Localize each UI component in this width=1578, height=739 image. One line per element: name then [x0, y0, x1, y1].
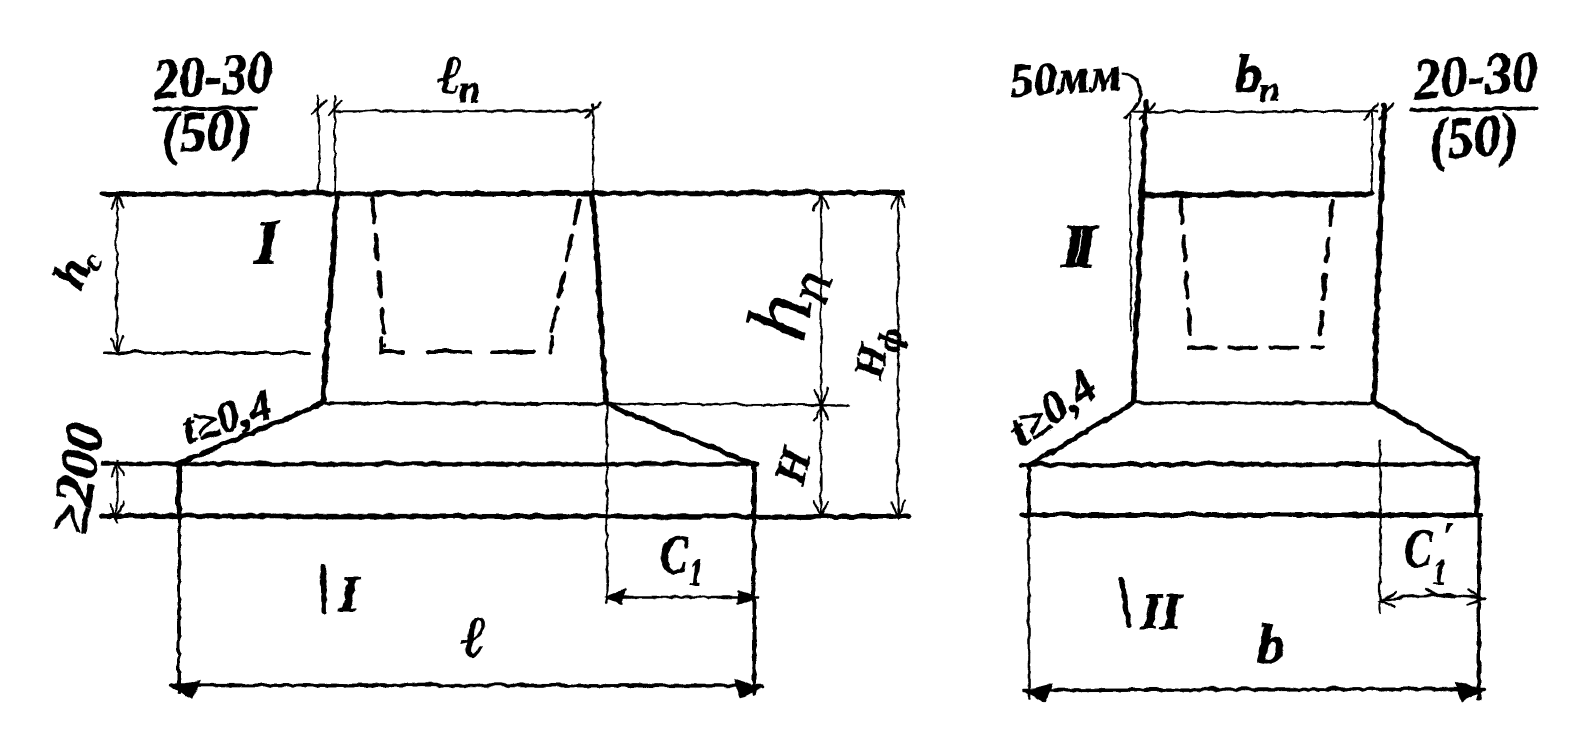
svg-text:п: п [458, 68, 479, 110]
right pedestal left wall [1132, 100, 1145, 401]
slab top line [102, 461, 756, 466]
dimension line C1 [606, 595, 757, 598]
arrow C1 right [737, 590, 754, 603]
svg-text:Н: Н [764, 441, 821, 489]
right left extension below slab [1027, 515, 1030, 697]
arrow tick bp left a [1124, 102, 1138, 118]
right right extension below slab [1476, 515, 1480, 697]
right pedestal left thin extension [1129, 113, 1130, 330]
right left slope [1028, 402, 1132, 465]
socket dashed bottom [380, 337, 551, 351]
arrow tick bp left b [1139, 103, 1153, 119]
arrow tick ln left b [328, 100, 341, 114]
left slope [179, 402, 322, 462]
bp dimension line (top face) [1131, 110, 1376, 111]
right socket dashed bottom [1188, 346, 1322, 347]
svg-text:п: п [1259, 68, 1279, 108]
pedestal bottom extension to h-dim [609, 403, 847, 404]
right slab right edge [1473, 458, 1479, 515]
socket dashed left wall [371, 197, 384, 345]
foundation top line [101, 192, 902, 193]
svg-text:b: b [1256, 613, 1284, 675]
arrow hc bottom [110, 335, 122, 351]
arrow b left [1023, 683, 1051, 701]
arrow H bottom [813, 500, 827, 516]
svg-text:b: b [1234, 43, 1261, 103]
dimension line l [170, 684, 762, 685]
svg-text:′: ′ [1441, 514, 1453, 560]
right right slope [1373, 401, 1472, 458]
left extension line below slab [177, 517, 180, 692]
dimension hc vertical [115, 193, 117, 351]
arrow b right [1455, 682, 1481, 700]
right slab top line [1021, 463, 1476, 464]
hc bottom extension line [104, 351, 308, 354]
arrow Hf top [890, 192, 904, 208]
arrow l right [733, 679, 759, 697]
label hn rotated [727, 257, 844, 348]
label t>=0.4 right rotated [997, 359, 1105, 456]
arrow hc top [110, 193, 122, 208]
right pedestal bottom line [1132, 400, 1373, 404]
pedestal right wall [592, 195, 605, 401]
right slab left edge [1026, 464, 1030, 515]
right socket dashed left wall [1180, 198, 1190, 342]
extension line 20-30 gap right [333, 95, 335, 192]
svg-text:ℓ: ℓ [460, 603, 485, 668]
dimension hn vertical [819, 193, 821, 404]
right slope corner piece [1472, 458, 1476, 462]
arrow C1' right [1467, 590, 1483, 603]
svg-text:t≥0,4: t≥0,4 [997, 359, 1105, 456]
hook under C1' [1426, 589, 1455, 596]
arrow tick bp right a [1363, 102, 1377, 118]
slab bottom line [100, 515, 908, 516]
dimension >=200 vertical [115, 459, 117, 522]
dimension Hf vertical [896, 192, 898, 517]
dimension line ln [336, 109, 592, 111]
label H rotated [764, 441, 821, 489]
arrow hn bottom [813, 388, 827, 404]
arrow C1' left [1379, 592, 1395, 605]
label t>=0.4 left rotated [175, 379, 277, 453]
svg-text:I: I [337, 565, 360, 622]
svg-text:(50): (50) [157, 95, 253, 166]
right slope [605, 403, 751, 463]
svg-text:20-30: 20-30 [1409, 37, 1539, 111]
arrow H top [813, 405, 827, 420]
svg-text:≥200: ≥200 [37, 418, 115, 537]
section mark I bottom bar [322, 565, 323, 611]
arrow hn top [813, 193, 827, 209]
section mark II bottom bar [1120, 578, 1128, 624]
svg-text:I: I [253, 208, 280, 276]
extension line C1 from pedestal corner [605, 401, 607, 601]
right pedestal right thin extension [1370, 111, 1372, 194]
socket dashed right wall [549, 199, 578, 341]
socket top thick line [1144, 193, 1371, 194]
arrow 200 top [110, 461, 123, 476]
svg-text:50мм: 50мм [1007, 47, 1122, 107]
arrow 200 bottom [109, 501, 123, 519]
slab left edge [176, 462, 181, 517]
hook from 50mm [1122, 72, 1139, 100]
extension line 20-30 gap left [317, 95, 319, 192]
pedestal left wall [322, 195, 336, 401]
extension line ln right [591, 104, 593, 193]
arrow C1 left [606, 589, 624, 602]
extension line C1' [1378, 440, 1380, 612]
fraction bar left [153, 107, 255, 108]
label Hf rotated [844, 320, 909, 384]
right slab bottom line [1022, 512, 1480, 517]
label hc rotated [41, 239, 110, 297]
fraction bar right [1410, 107, 1535, 109]
right socket dashed right wall [1319, 200, 1331, 336]
slab right edge [751, 462, 756, 517]
label >=200 rotated [37, 418, 115, 537]
arrow l left [171, 679, 199, 697]
dimension H vertical [819, 404, 821, 517]
right extension line below slab [751, 517, 755, 692]
arrow tick ln right [585, 101, 600, 117]
svg-text:II: II [1139, 583, 1182, 640]
dimension line b [1022, 688, 1484, 689]
dimension line C1' [1379, 594, 1484, 600]
arrow tick bp right b [1378, 102, 1392, 118]
svg-text:II: II [1059, 212, 1097, 280]
pedestal bottom line [322, 402, 610, 403]
arrow Hf bottom [890, 499, 904, 517]
svg-text:C: C [659, 524, 688, 584]
svg-text:1: 1 [688, 552, 702, 593]
svg-text:C: C [1403, 518, 1432, 578]
right pedestal right wall [1373, 104, 1383, 401]
svg-text:(50): (50) [1425, 100, 1519, 171]
arrow tick ln left a [312, 99, 325, 113]
